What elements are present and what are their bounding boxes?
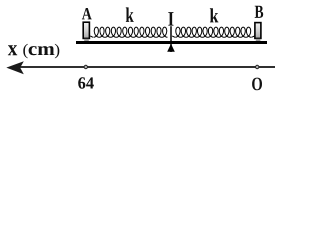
label x (cm) [8, 44, 59, 59]
label A [82, 8, 92, 19]
pin at I [170, 26, 172, 52]
spring k right [172, 27, 254, 37]
spring k left [90, 27, 167, 37]
label k (right) [210, 8, 219, 22]
label O [252, 78, 262, 91]
fulcrum triangle [167, 44, 175, 52]
label B [255, 6, 264, 18]
label I [168, 12, 173, 26]
x axis arrowhead [6, 61, 24, 74]
label 64 [78, 77, 94, 88]
bar (beam) [76, 41, 267, 44]
label k (left) [126, 7, 134, 22]
x axis line [18, 66, 275, 68]
block A [83, 22, 89, 41]
block B [255, 23, 261, 41]
tick dot 64 [84, 65, 87, 68]
tick dot O [256, 65, 259, 68]
